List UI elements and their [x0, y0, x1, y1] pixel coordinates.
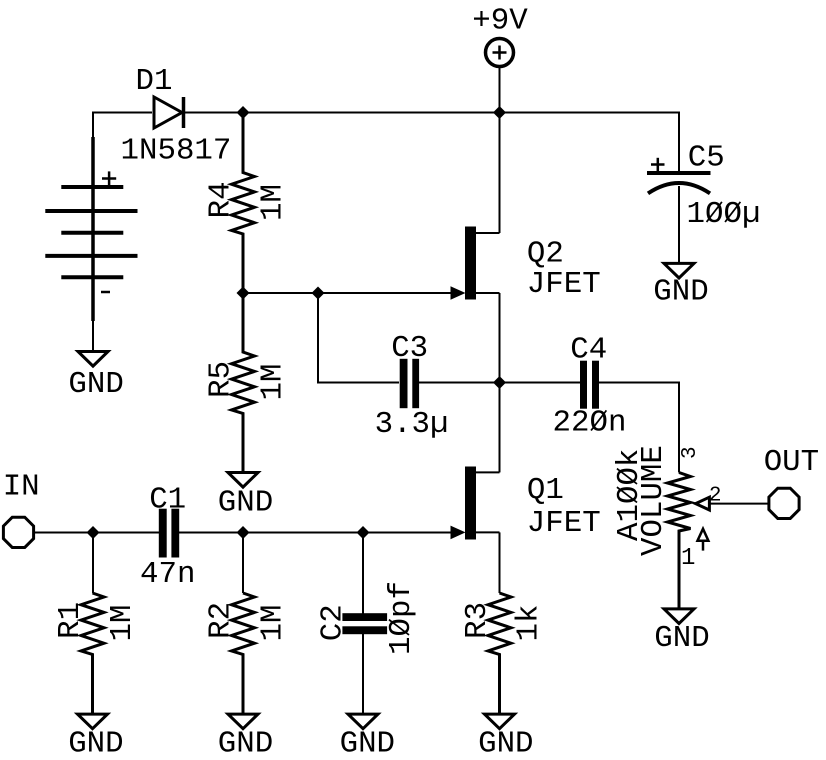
svg-text:R5: R5: [203, 361, 238, 398]
potentiometer VR1 A100k VOLUME: [612, 445, 722, 609]
svg-text:JFET: JFET: [527, 506, 601, 541]
wire top rail left (battery to diode): [93, 112, 152, 114]
wire C1 to Q1 gate: [179, 532, 451, 534]
svg-text:C3: C3: [391, 331, 428, 366]
node junction (243,293): [237, 287, 250, 300]
capacitor C4 220n: [553, 332, 627, 440]
ground (battery): [68, 352, 123, 403]
transistor Q1 JFET: [451, 467, 601, 542]
wire C5 to gnd: [678, 186, 680, 263]
svg-text:JFET: JFET: [527, 267, 601, 302]
connector IN: [3, 470, 40, 548]
power symbol +9V: [472, 4, 528, 67]
node junction (318,293): [312, 287, 325, 300]
resistor R5 1M: [203, 293, 290, 473]
svg-text:GND: GND: [218, 727, 273, 760]
connector OUT: [764, 445, 819, 518]
svg-text:1M: 1M: [256, 184, 291, 221]
ground (R1): [68, 714, 123, 760]
svg-text:1M: 1M: [105, 605, 140, 642]
wire node to C4: [500, 382, 581, 384]
svg-text:1ØØµ: 1ØØµ: [687, 197, 761, 232]
svg-text:C1: C1: [149, 482, 186, 517]
node junction (499,112): [493, 106, 506, 119]
capacitor C3 3.3u: [375, 331, 449, 442]
wire Q1 drain up: [499, 383, 501, 473]
svg-text:C5: C5: [688, 141, 725, 176]
ground (C2): [340, 714, 395, 760]
wire C3 to node: [419, 382, 500, 384]
svg-text:47n: 47n: [140, 557, 195, 592]
svg-text:GND: GND: [68, 727, 123, 760]
node junction (93,532): [87, 526, 100, 539]
svg-text:1k: 1k: [512, 605, 547, 642]
svg-text:OUT: OUT: [764, 445, 819, 480]
capacitor C2 10pf: [316, 533, 419, 715]
svg-text:1Øpf: 1Øpf: [384, 581, 419, 655]
wire wiper to OUT: [709, 503, 768, 505]
svg-text:1M: 1M: [256, 605, 291, 642]
wire top rail right (diode to C5 corner): [184, 112, 679, 114]
svg-text:GND: GND: [68, 367, 123, 402]
wire battery bottom: [92, 321, 94, 352]
resistor R3 1k: [460, 532, 547, 714]
wire gate rail Q2: [243, 292, 451, 294]
node junction (499,383): [493, 376, 506, 389]
svg-text:GND: GND: [218, 486, 273, 521]
transistor Q2 JFET: [451, 227, 601, 303]
svg-text:R4: R4: [203, 181, 238, 218]
wire battery top: [92, 112, 94, 141]
svg-text:22Øn: 22Øn: [553, 406, 627, 441]
svg-text:GND: GND: [478, 727, 533, 760]
wire Q2 source down: [499, 293, 501, 383]
resistor R4 1M: [203, 113, 290, 294]
ground (pot): [654, 609, 709, 656]
svg-text:1M: 1M: [256, 364, 291, 401]
ground (R2): [218, 714, 273, 760]
svg-text:VOLUME: VOLUME: [636, 445, 671, 556]
svg-text:1N5817: 1N5817: [121, 134, 232, 169]
svg-text:C2: C2: [316, 604, 351, 641]
svg-text:D1: D1: [136, 64, 173, 99]
ground (R5): [218, 473, 273, 521]
node junction (243,112): [237, 106, 250, 119]
wire C3 branch: [318, 293, 399, 383]
resistor R2 1M: [203, 533, 290, 715]
svg-text:C4: C4: [570, 332, 607, 367]
svg-text:R1: R1: [53, 602, 88, 639]
svg-text:R3: R3: [460, 602, 495, 639]
svg-text:IN: IN: [3, 470, 40, 505]
svg-text:3.3µ: 3.3µ: [375, 407, 449, 442]
diode D1: [121, 64, 232, 169]
wire +9V stem: [499, 67, 501, 113]
ground (C5): [653, 263, 708, 309]
wire C5 drop: [678, 112, 680, 172]
wire IN to C1: [35, 532, 159, 534]
svg-text:Q1: Q1: [527, 473, 564, 508]
resistor R1 1M: [53, 533, 140, 715]
svg-text:GND: GND: [653, 275, 708, 310]
wire Q2 drain up: [499, 113, 501, 234]
svg-text:1: 1: [681, 545, 695, 572]
ground (R3): [478, 714, 533, 760]
node junction (243,532): [237, 526, 250, 539]
svg-text:3: 3: [679, 446, 702, 459]
battery BT1: [45, 137, 137, 321]
capacitor C1 47n: [140, 482, 195, 592]
node junction (363,532): [357, 526, 370, 539]
svg-text:R2: R2: [203, 602, 238, 639]
svg-text:+9V: +9V: [472, 4, 528, 39]
svg-text:GND: GND: [654, 621, 709, 656]
capacitor C5 100u (polarized): [647, 141, 760, 233]
svg-text:GND: GND: [340, 727, 395, 760]
wire C4 to pot corner: [599, 383, 679, 473]
